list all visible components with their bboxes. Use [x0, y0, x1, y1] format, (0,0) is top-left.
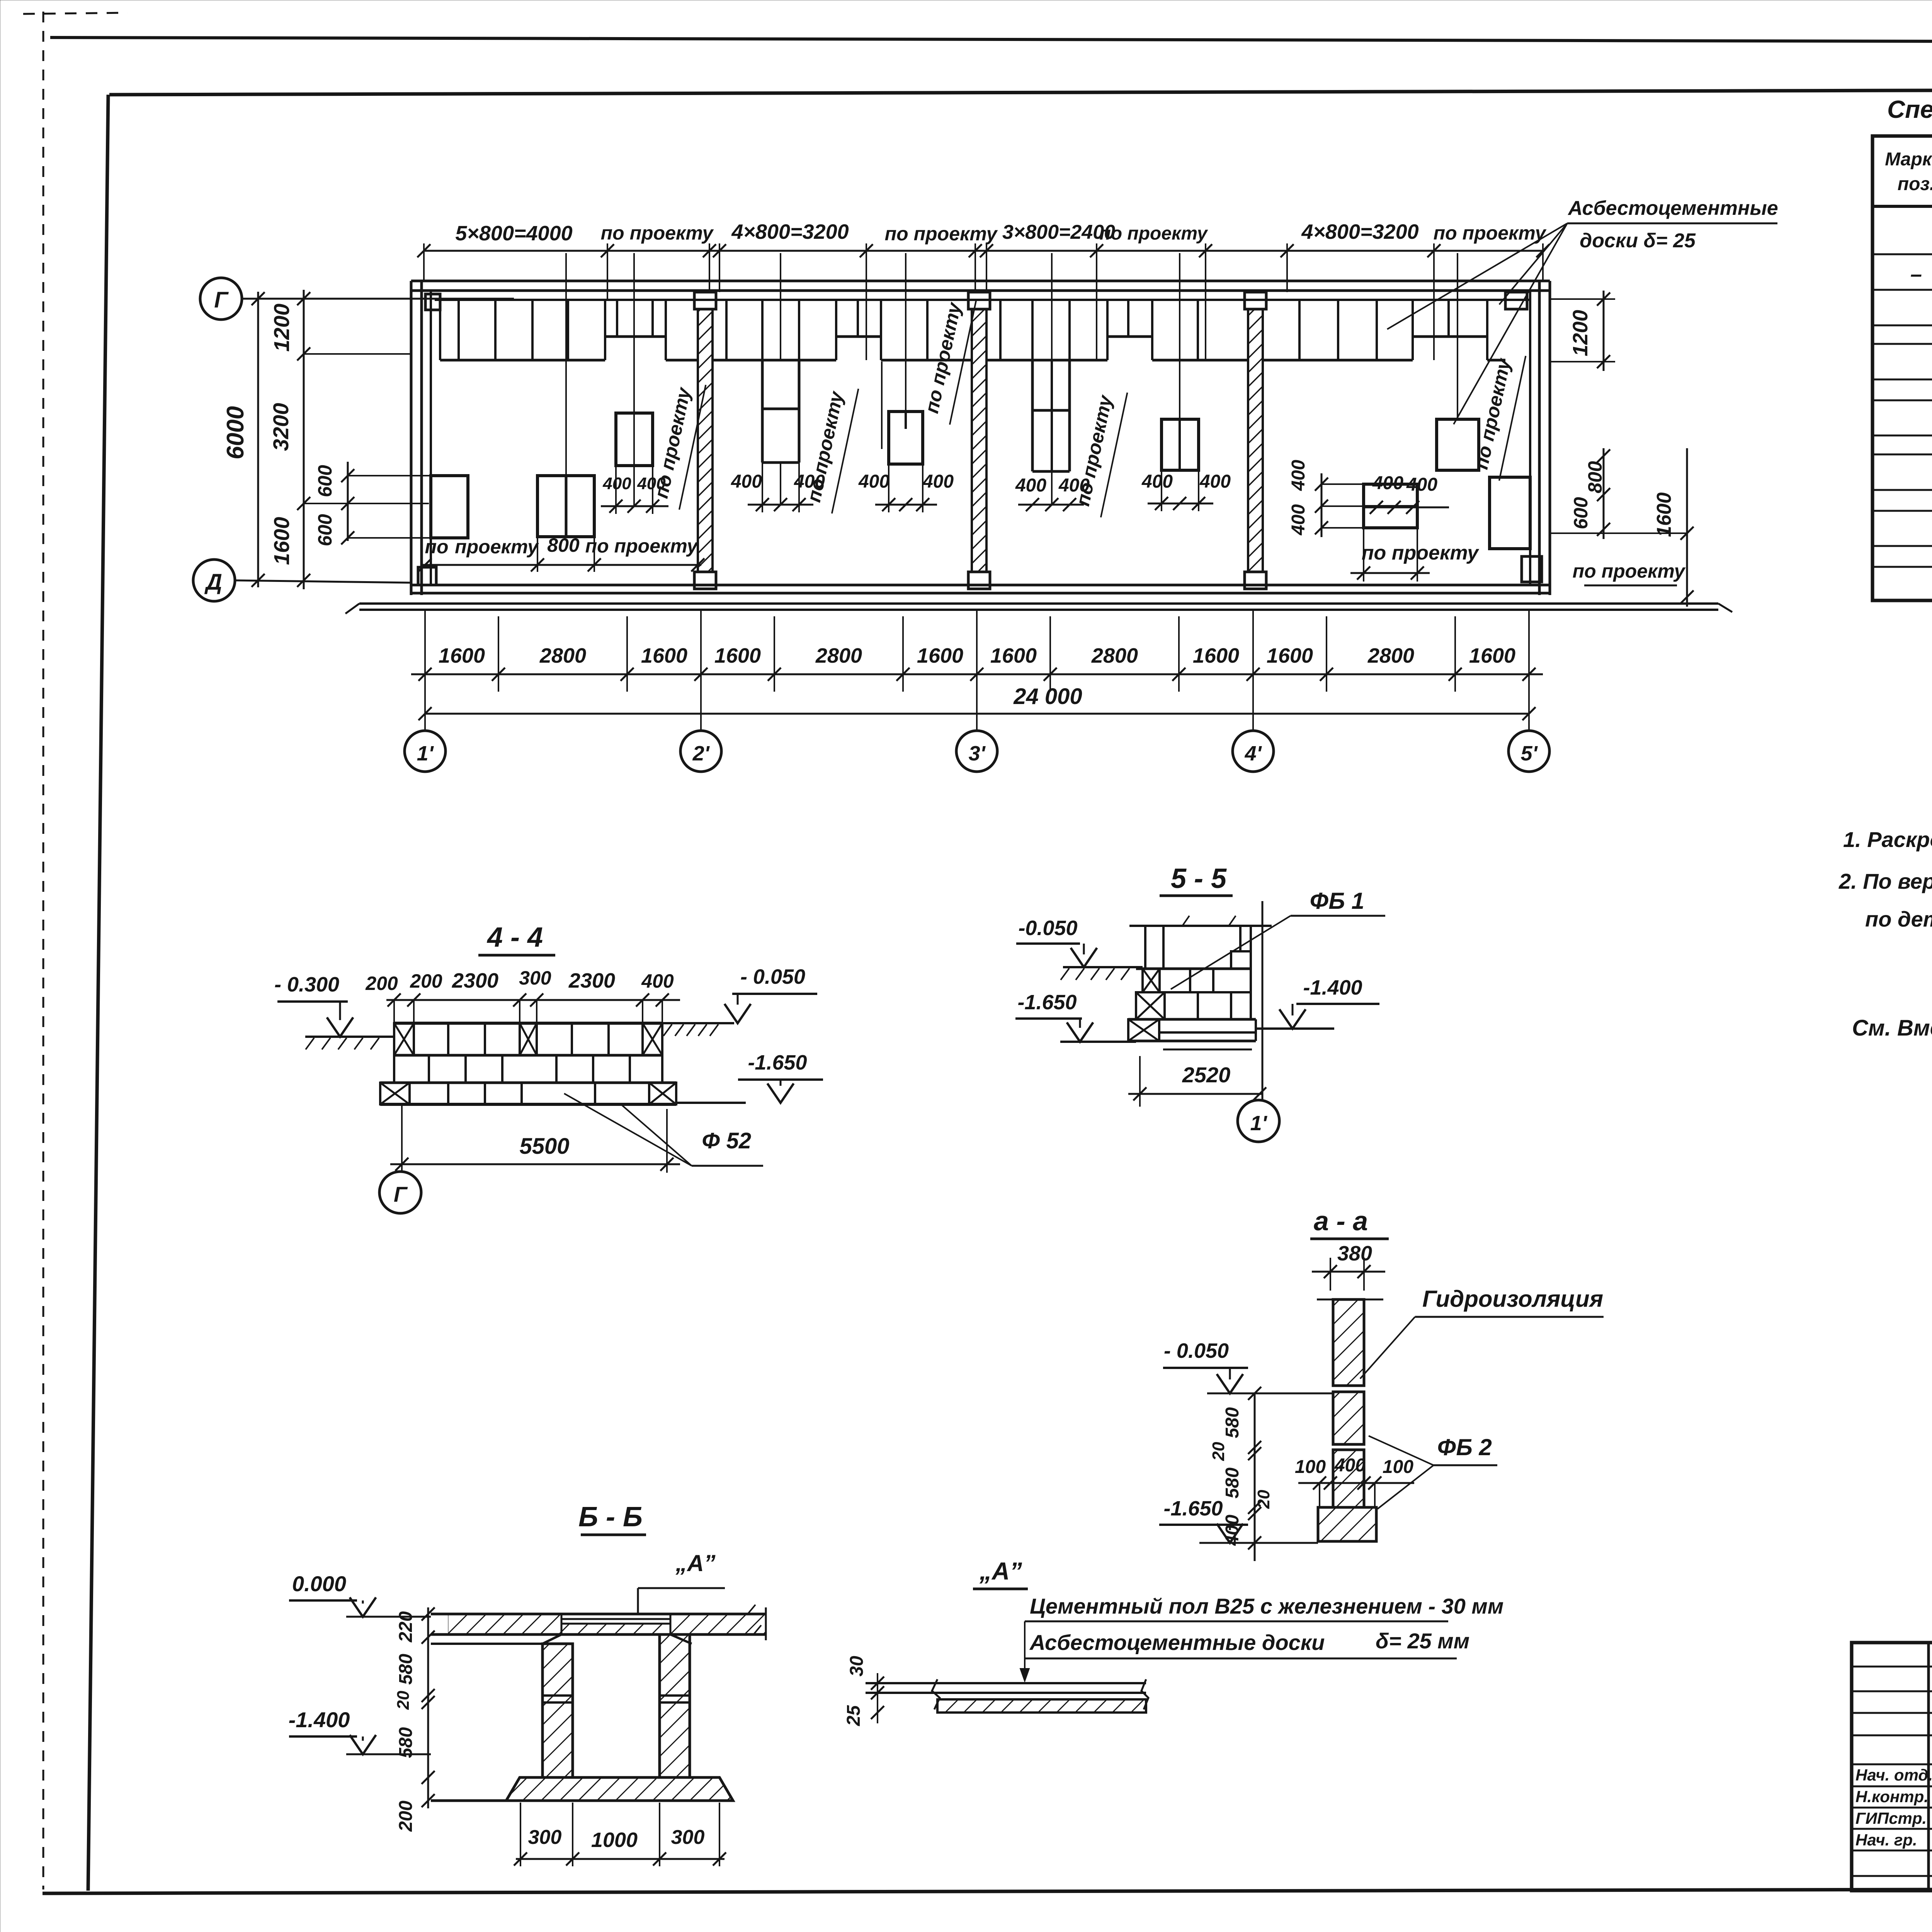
svg-text:400: 400 — [858, 471, 889, 492]
svg-text:Цементный пол В25 с железне: Цементный пол В25 с железнением - 30 мм — [1030, 1594, 1503, 1618]
plan: axis Г bubble — [200, 278, 242, 320]
section 4-4 axis Г bubble — [379, 1172, 421, 1213]
inner frame top line — [109, 88, 1932, 95]
svg-text:1600: 1600 — [1469, 644, 1515, 667]
svg-text:1': 1' — [417, 742, 434, 765]
title block left rows — [1852, 1666, 1932, 1668]
svg-text:„А”: „А” — [675, 1550, 715, 1576]
svg-text:поз.: поз. — [1898, 174, 1932, 194]
plan: left dim chain 1200/3200/1600 — [303, 290, 305, 589]
detail A left dims 30/25 — [877, 1673, 878, 1723]
svg-text:0.000: 0.000 — [292, 1571, 346, 1596]
svg-text:по проекту: по проекту — [1573, 560, 1686, 582]
section a-a hatched pier upper — [1333, 1299, 1364, 1386]
inner frame bottom line — [43, 1888, 1932, 1893]
svg-text:3200: 3200 — [269, 403, 293, 451]
plan: bay3 R5 dims 400/400 — [1148, 503, 1213, 505]
svg-text:2. По верху асбестоцементных: 2. По верху асбестоцементных досок выпол… — [1838, 869, 1932, 893]
plan: bay2 channel dims 400/400 — [748, 504, 813, 506]
svg-text:1600: 1600 — [269, 517, 294, 565]
svg-text:5500: 5500 — [519, 1134, 569, 1159]
plan: asbestos board row along top wall — [440, 359, 605, 362]
svg-text:3×800=2400: 3×800=2400 — [1002, 221, 1115, 243]
sheet top-left dashed edge — [23, 13, 128, 14]
svg-text:800: 800 — [547, 534, 580, 556]
svg-text:20: 20 — [1209, 1442, 1228, 1461]
section Б-Б right pier (hatched) — [660, 1634, 690, 1777]
section 4-4 ground line right — [662, 1022, 734, 1024]
board R1 bay1 — [431, 476, 468, 538]
svg-text:580: 580 — [1222, 1407, 1243, 1438]
svg-text:-0.050: -0.050 — [1018, 917, 1077, 940]
svg-text:800: 800 — [1584, 461, 1606, 493]
svg-text:600: 600 — [314, 514, 336, 546]
plan: top wall — [411, 280, 1550, 282]
plan: left wall — [410, 281, 413, 595]
svg-text:доски δ= 25: доски δ= 25 — [1580, 230, 1696, 252]
svg-text:1600: 1600 — [1653, 492, 1675, 537]
svg-text:24 000: 24 000 — [1013, 684, 1082, 709]
svg-text:по проекту: по проекту — [1072, 393, 1117, 508]
svg-text:400: 400 — [602, 474, 631, 493]
svg-text:1600: 1600 — [1193, 644, 1239, 667]
section 4-4 ground line left — [305, 1036, 394, 1038]
section Б-Б floor recess strip — [561, 1618, 670, 1620]
plan: board channel bay2 — [761, 360, 764, 463]
section Б-Б footing (hatched) — [506, 1777, 733, 1801]
svg-text:1200: 1200 — [1569, 310, 1592, 356]
svg-text:2300: 2300 — [568, 969, 615, 992]
section a-a pier joint — [1333, 1391, 1364, 1393]
section 4-4 block wall course 2 — [394, 1082, 662, 1084]
section 4-4 block wall course 1 — [394, 1022, 662, 1025]
svg-text:„А”: „А” — [979, 1557, 1022, 1585]
svg-text:по проекту: по проекту — [1470, 356, 1515, 471]
plan: top beam line — [435, 299, 1530, 301]
svg-text:5': 5' — [1521, 742, 1538, 765]
svg-text:ΦБ 2: ΦБ 2 — [1437, 1434, 1492, 1460]
svg-text:220: 220 — [396, 1611, 416, 1643]
svg-text:100: 100 — [1295, 1457, 1326, 1477]
detail A leader — [1024, 1621, 1026, 1680]
svg-text:1000: 1000 — [591, 1828, 638, 1852]
svg-text:2800: 2800 — [1091, 644, 1138, 667]
svg-text:400: 400 — [1372, 473, 1403, 493]
plan: right side dim 1200 — [1550, 298, 1615, 300]
svg-text:1. Раскрой асбестоцементных: 1. Раскрой асбестоцементных досок произв… — [1843, 827, 1932, 852]
svg-text:а - а: а - а — [1314, 1206, 1368, 1236]
svg-text:1': 1' — [1250, 1112, 1268, 1135]
svg-text:600: 600 — [1570, 497, 1592, 529]
section a-a left dim chain — [1254, 1393, 1256, 1561]
plan: left dim line 6000 — [257, 292, 259, 587]
plan: bay2 R4 dims 400/400 — [882, 498, 895, 511]
sheet left dashed margin line — [43, 12, 44, 1889]
plan: axis Г leader line — [243, 298, 514, 300]
svg-text:300: 300 — [528, 1826, 562, 1849]
svg-text:Нач. отд.: Нач. отд. — [1855, 1766, 1932, 1784]
svg-text:по проекту: по проекту — [1099, 223, 1208, 244]
plan: right wall — [1549, 281, 1551, 595]
plan: bay4 R7 vertical dims 400/400 — [1321, 473, 1323, 537]
section 5-5 dim 2520 — [1139, 1056, 1141, 1107]
svg-text:- 0.300: - 0.300 — [274, 973, 339, 996]
board R2 bay1 — [537, 476, 594, 537]
svg-text:5 - 5: 5 - 5 — [1171, 863, 1227, 894]
section a-a hatched pier lower — [1333, 1450, 1364, 1507]
board R7 bay4 — [1364, 484, 1417, 528]
section 4-4 dim line — [386, 999, 680, 1001]
svg-text:См. Вместе с листом АС1-31: См. Вместе с листом АС1-31 — [1852, 1015, 1932, 1041]
svg-text:380: 380 — [1337, 1242, 1372, 1265]
svg-text:Асбестоцементные: Асбестоцементные — [1567, 197, 1778, 219]
svg-text:Б - Б: Б - Б — [578, 1502, 643, 1532]
svg-text:-1.650: -1.650 — [1163, 1497, 1223, 1520]
section 5-5 blocks — [1136, 968, 1251, 970]
svg-text:580: 580 — [396, 1654, 416, 1685]
svg-text:20: 20 — [1254, 1490, 1273, 1509]
svg-text:Г: Г — [394, 1182, 408, 1206]
svg-text:580: 580 — [1222, 1468, 1243, 1498]
svg-text:по проекту: по проекту — [1434, 222, 1547, 244]
svg-text:200: 200 — [396, 1801, 416, 1832]
svg-text:- 0.050: - 0.050 — [740, 965, 805, 988]
svg-text:Г: Г — [214, 287, 229, 313]
svg-text:Гидроизоляция: Гидроизоляция — [1422, 1286, 1603, 1312]
svg-text:по проекту: по проекту — [885, 223, 998, 245]
svg-text:1600: 1600 — [990, 644, 1037, 667]
svg-text:по проекту: по проекту — [650, 385, 695, 500]
section 5-5 ground line — [1063, 966, 1143, 968]
svg-text:300: 300 — [671, 1826, 705, 1849]
svg-text:-1.650: -1.650 — [748, 1051, 807, 1074]
plan: axis Д bubble — [193, 560, 235, 601]
plan: partition wall axis 4 (hatched) — [1248, 309, 1263, 572]
section Б-Б bottom dims 300/1000/300 — [520, 1803, 521, 1866]
board R5 bay3 — [1162, 419, 1199, 470]
svg-text:400: 400 — [1199, 471, 1231, 492]
plan: top dimension line — [424, 250, 1543, 252]
detail A floor slab — [866, 1682, 1146, 1684]
svg-text:1600: 1600 — [641, 644, 687, 667]
plan: bay3 channel dims 400/400 — [1018, 504, 1084, 506]
svg-text:200: 200 — [410, 970, 442, 992]
board R6 bay4 — [1437, 419, 1479, 470]
plan: partition wall axis 3 (hatched) — [972, 309, 986, 572]
svg-text:400: 400 — [641, 970, 674, 992]
svg-text:2': 2' — [692, 742, 710, 765]
svg-text:4 - 4: 4 - 4 — [486, 922, 543, 953]
svg-text:6000: 6000 — [222, 406, 249, 459]
svg-text:2800: 2800 — [815, 644, 862, 667]
svg-text:-1.400: -1.400 — [289, 1708, 350, 1732]
svg-text:по детали „А”: по детали „А” — [1865, 907, 1932, 931]
detail A edge breaks — [932, 1679, 1148, 1709]
section Б-Б left pier (hatched) — [543, 1644, 573, 1777]
svg-text:Нач. гр.: Нач. гр. — [1855, 1831, 1917, 1849]
svg-text:ГИПстр.: ГИПстр. — [1855, 1809, 1927, 1827]
section 4-4 dim 5500 — [401, 1104, 403, 1172]
svg-text:2520: 2520 — [1182, 1063, 1231, 1087]
svg-text:400: 400 — [922, 471, 954, 492]
svg-text:-1.650: -1.650 — [1017, 991, 1077, 1014]
section a-a hatched footing — [1318, 1507, 1376, 1541]
svg-text:3': 3' — [969, 742, 986, 765]
plan: foundation strip below wall — [359, 602, 1718, 605]
svg-text:Φ 52: Φ 52 — [702, 1128, 751, 1153]
svg-text:1600: 1600 — [917, 644, 963, 667]
svg-text:2800: 2800 — [539, 644, 586, 667]
svg-text:400: 400 — [1406, 474, 1437, 495]
svg-text:400: 400 — [1288, 504, 1309, 536]
svg-text:Марка,: Марка, — [1885, 149, 1932, 170]
board R8 bay4 — [1490, 477, 1530, 549]
plan: axis Д leader line — [235, 580, 411, 583]
svg-text:δ= 25 мм: δ= 25 мм — [1376, 1629, 1469, 1653]
svg-text:600: 600 — [314, 465, 336, 497]
section a-a hatched pier middle — [1333, 1392, 1364, 1444]
plan: left extension lines — [304, 353, 411, 355]
svg-text:400: 400 — [1015, 475, 1046, 496]
svg-text:по: по — [425, 536, 448, 558]
section Б-Б left dim chain — [427, 1607, 429, 1808]
plan: axis bubbles 1-5 — [424, 611, 426, 731]
svg-text:200: 200 — [365, 973, 398, 994]
svg-text:2800: 2800 — [1367, 644, 1414, 667]
section Б-Б top slab — [431, 1613, 766, 1616]
spec table grid — [1872, 136, 1932, 600]
board R3 bay1 — [616, 413, 653, 466]
plan: right side dims 600/800 — [1603, 448, 1605, 539]
svg-text:4×800=3200: 4×800=3200 — [731, 220, 849, 243]
plan: corner columns — [425, 294, 440, 310]
svg-text:1600: 1600 — [439, 644, 485, 667]
section 4-4 foundation slab course — [380, 1082, 676, 1084]
svg-text:1200: 1200 — [269, 304, 294, 352]
section 5-5 axis line and bubble 1 — [1262, 901, 1264, 1100]
svg-text:4': 4' — [1245, 742, 1262, 765]
board R4 bay2 — [889, 412, 923, 464]
svg-text:400: 400 — [731, 471, 762, 492]
svg-text:20: 20 — [394, 1690, 413, 1710]
section 5-5 wall verticals — [1144, 926, 1146, 969]
inner frame left line — [88, 95, 108, 1891]
svg-text:25: 25 — [844, 1705, 864, 1726]
plan: top dim extension verticals — [423, 243, 425, 281]
title block left columns — [1927, 1643, 1930, 1891]
svg-text:400: 400 — [1141, 471, 1173, 492]
svg-text:30: 30 — [847, 1656, 867, 1677]
plan: bottom dim chain 1600/2800 — [411, 673, 1543, 675]
svg-text:300: 300 — [519, 967, 551, 989]
plan: right side dim 1600 — [1550, 532, 1687, 534]
section a-a top cut line — [1317, 1299, 1383, 1301]
svg-text:1600: 1600 — [714, 644, 761, 667]
svg-text:Асбестоцементные доски: Асбестоцементные доски — [1029, 1630, 1325, 1655]
svg-text:-1.400: -1.400 — [1303, 976, 1362, 999]
section 5-5 wall top cut — [1129, 925, 1272, 927]
svg-text:по проекту: по проекту — [585, 535, 699, 557]
svg-text:100: 100 — [1383, 1457, 1413, 1477]
plan: long extension verticals — [565, 253, 567, 476]
svg-text:по проекту: по проекту — [601, 222, 714, 244]
svg-text:по проекту: по проекту — [1362, 542, 1480, 564]
svg-text:580: 580 — [396, 1727, 416, 1758]
svg-text:2300: 2300 — [452, 969, 498, 992]
plan: overall dim 24000 — [425, 713, 1529, 715]
plan: bay4 dims 400/400 — [1362, 507, 1449, 509]
svg-text:Спецификация к схеме распол: Спецификация к схеме расположения асбест… — [1887, 95, 1932, 123]
title block outer — [1852, 1643, 1932, 1891]
svg-text:5×800=4000: 5×800=4000 — [455, 222, 572, 245]
svg-text:4×800=3200: 4×800=3200 — [1301, 220, 1418, 243]
svg-text:Н.контр.: Н.контр. — [1855, 1787, 1929, 1806]
svg-text:–: – — [1910, 263, 1922, 286]
svg-text:проекту: проекту — [455, 536, 539, 558]
svg-text:Д: Д — [204, 570, 222, 595]
plan: bottom wall — [411, 584, 1550, 587]
svg-text:1600: 1600 — [1267, 644, 1313, 667]
plan: left dim 600/600 — [347, 462, 349, 541]
svg-text:400: 400 — [1288, 460, 1309, 491]
svg-text:- 0.050: - 0.050 — [1164, 1339, 1229, 1362]
svg-text:400: 400 — [1334, 1455, 1366, 1476]
plan: board channel bay3 — [1031, 360, 1034, 471]
plan: bay1 dims 400/400 under R3 — [601, 505, 668, 507]
sheet top outer border line — [50, 37, 1932, 43]
section Б-Б slab left lower edge — [431, 1643, 543, 1645]
svg-text:ΦБ 1: ΦБ 1 — [1310, 888, 1364, 914]
svg-text:по проекту: по проекту — [803, 389, 848, 504]
plan: partition wall axis 2 (hatched) — [698, 309, 713, 572]
